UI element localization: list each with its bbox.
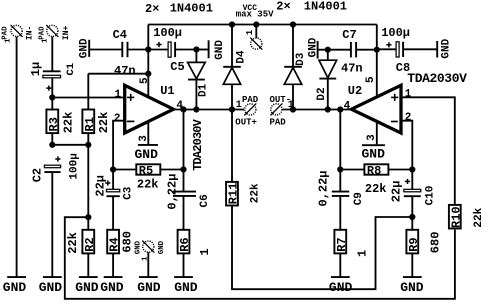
svg-text:100µ: 100µ <box>153 26 182 40</box>
wire feedback vertical U2 <box>339 110 341 170</box>
capacitor C10 <box>390 179 437 206</box>
wire U1 pin 3 to ground <box>147 122 149 144</box>
svg-text:100µ: 100µ <box>381 26 410 40</box>
resistor R6 <box>178 230 212 256</box>
svg-text:C5: C5 <box>170 60 184 74</box>
svg-text:R10: R10 <box>449 206 463 228</box>
capacitor C4 <box>113 28 128 57</box>
junction R8/C9 node <box>337 166 343 172</box>
svg-text:GND: GND <box>134 240 142 254</box>
svg-text:IN-: IN- <box>25 26 34 40</box>
svg-text:GND: GND <box>158 240 166 254</box>
svg-text:R3: R3 <box>47 117 61 131</box>
svg-text:0,22µ: 0,22µ <box>166 174 180 210</box>
junction D2 output node <box>325 106 331 112</box>
ground GND (C2) <box>39 277 63 295</box>
svg-text:1N4001: 1N4001 <box>170 2 213 16</box>
junction crosslink left node <box>85 214 91 220</box>
pin 5 label U2 <box>365 76 377 83</box>
wire R3 to lower rail <box>51 133 53 145</box>
value 47n (C4) <box>114 64 136 78</box>
wire C4 to supply node <box>128 49 149 51</box>
wire C3 to R4 <box>112 196 114 230</box>
svg-text:PAD: PAD <box>1 26 9 40</box>
wire node to C9 <box>339 170 341 191</box>
junction R1/R2 <box>85 142 91 148</box>
svg-text:R7: R7 <box>335 237 349 251</box>
junction D3 rail <box>290 21 296 27</box>
junction D3 output node <box>290 106 296 112</box>
svg-text:1: 1 <box>4 38 12 43</box>
wire feedback node to C6 <box>183 170 185 191</box>
wire lower rail R3-R1 <box>52 144 88 146</box>
svg-text:GND: GND <box>400 280 424 295</box>
junction U1 +input node <box>49 94 55 100</box>
svg-text:1: 1 <box>198 248 212 255</box>
wire down to R1 (crosses pin1 wire) <box>87 74 89 110</box>
svg-text:GND: GND <box>135 147 159 162</box>
svg-text:R1: R1 <box>83 117 97 131</box>
wire GND pad to ground <box>147 252 149 277</box>
wire node to GND bar <box>196 49 208 51</box>
svg-text:D3: D3 <box>295 52 307 66</box>
svg-text:C1: C1 <box>65 63 77 76</box>
svg-text:GND: GND <box>3 280 27 295</box>
svg-text:GND: GND <box>137 280 161 295</box>
wire crosslink to R10 (bottom bus) <box>65 217 455 299</box>
capacitor C3 <box>94 175 135 200</box>
wire R1/R2 vertical <box>87 145 89 230</box>
wire supply node to C8 <box>377 48 396 50</box>
wire C2 to ground <box>51 172 53 277</box>
junction D4 rail <box>229 21 235 27</box>
capacitor C5 <box>153 26 185 74</box>
wire R5 to feedback node <box>160 169 183 171</box>
junction R5/C3 node <box>110 166 116 172</box>
wire OUT- pad to U2 output <box>282 109 351 111</box>
svg-text:1: 1 <box>42 38 50 43</box>
wire C8 to GND bar <box>403 48 437 50</box>
svg-text:R2: R2 <box>83 237 97 251</box>
wire U2 supply vertical (rail corner to pin 5) <box>376 25 378 96</box>
wire R11 to C10/R9 node (bottom link) <box>232 206 412 290</box>
svg-text:680: 680 <box>429 232 443 254</box>
svg-text:22µ: 22µ <box>94 175 108 197</box>
svg-text:GND: GND <box>214 40 226 60</box>
pin 4 label U1 <box>176 100 183 112</box>
svg-text:C7: C7 <box>342 28 356 42</box>
ground GND (R2) <box>75 277 99 295</box>
svg-text:PAD: PAD <box>39 26 47 40</box>
svg-text:U2: U2 <box>348 84 362 98</box>
junction 47n node / pin 5 <box>145 71 151 77</box>
svg-text:4: 4 <box>344 100 351 112</box>
pin 2 label U2 <box>405 112 412 124</box>
ground GND (IN-) <box>3 277 27 295</box>
svg-text:D4: D4 <box>236 50 248 64</box>
ground GND (C7 left) <box>308 37 320 58</box>
junction R5/C6 node <box>180 166 186 172</box>
svg-text:GND: GND <box>39 280 63 295</box>
svg-text:1: 1 <box>356 250 370 257</box>
op-amp U1 (TDA2030V) <box>125 84 205 171</box>
power pad VCC <box>236 4 274 50</box>
wire pin2 node to C10 <box>411 170 413 190</box>
svg-text:1: 1 <box>236 100 242 111</box>
ground GND (R4) <box>100 277 124 295</box>
wire U1 output to OUT+ pad <box>173 109 244 111</box>
label 2x 1N4001 right <box>276 0 347 14</box>
resistor R7 <box>334 230 369 257</box>
pad OUT- (PAD1) <box>270 95 294 128</box>
svg-text:C10: C10 <box>425 186 437 206</box>
svg-text:TDA2030V: TDA2030V <box>191 118 205 170</box>
ground GND (C5 right) <box>209 40 226 60</box>
pin 5 label U1 <box>139 77 151 84</box>
ground GND (C8 right) <box>437 38 452 58</box>
svg-text:22k: 22k <box>61 112 75 134</box>
label 2x 1N4001 left <box>145 2 213 17</box>
junction R3/C2 <box>49 142 55 148</box>
ground GND (U2 pin 3) <box>362 145 386 161</box>
resistor R4 <box>107 230 134 254</box>
svg-text:22k: 22k <box>97 112 111 134</box>
value 47n (C7) <box>341 62 363 76</box>
svg-text:GND: GND <box>362 146 386 161</box>
junction feedback tap U2 <box>337 106 343 112</box>
capacitor C2 <box>31 153 81 182</box>
wire U1 pin 2 to R5 node <box>113 121 125 170</box>
svg-text:TDA2030V: TDA2030V <box>407 71 467 86</box>
svg-text:2: 2 <box>405 112 412 124</box>
capacitor C8 <box>381 26 410 75</box>
svg-text:2×: 2× <box>145 2 159 16</box>
svg-text:22k: 22k <box>66 232 80 254</box>
pin 2 label U1 <box>114 113 121 125</box>
wire R1 to lower rail <box>87 133 89 145</box>
wire C7 to supply node <box>356 49 377 51</box>
wire U2 pin 1 to R10 <box>401 97 455 205</box>
resistor R9 <box>406 230 442 254</box>
svg-text:1: 1 <box>405 88 412 100</box>
svg-text:680: 680 <box>121 231 135 253</box>
diode D3 <box>284 25 307 110</box>
resistor R10 <box>449 205 485 229</box>
svg-text:22k: 22k <box>473 207 485 227</box>
svg-text:47n: 47n <box>114 64 136 78</box>
resistor R3 <box>46 110 75 134</box>
svg-text:22k: 22k <box>250 183 262 203</box>
svg-text:R9: R9 <box>407 237 421 251</box>
svg-text:C3: C3 <box>123 186 135 200</box>
wire C5 to D1/GND node <box>175 49 196 51</box>
ground GND (R7) <box>329 277 353 295</box>
pin 1 label U2 <box>405 88 412 100</box>
wire U2 pin 3 to ground <box>376 122 378 144</box>
svg-text:5: 5 <box>139 77 151 84</box>
wire feedback vertical U1 <box>183 110 185 170</box>
svg-text:OUT+: OUT+ <box>235 117 257 127</box>
svg-text:C6: C6 <box>199 194 211 207</box>
svg-text:1N4001: 1N4001 <box>304 0 347 14</box>
svg-text:2: 2 <box>114 113 121 125</box>
svg-text:D1: D1 <box>198 83 210 97</box>
wire input node to U1 pin 1 <box>52 97 124 99</box>
resistor R2 <box>66 230 97 254</box>
diode D4 <box>223 25 247 110</box>
pad OUT+ (PAD1) <box>235 95 259 128</box>
junction D2/C7 node <box>325 47 331 53</box>
wire C9 to R7 <box>339 195 341 230</box>
svg-text:0,22µ: 0,22µ <box>317 170 331 206</box>
wire R2 to ground <box>87 253 89 277</box>
svg-text:C4: C4 <box>113 28 127 42</box>
resistor R1 <box>82 110 111 134</box>
svg-text:GND: GND <box>100 280 124 295</box>
svg-text:5: 5 <box>365 76 377 83</box>
svg-text:GND: GND <box>329 280 353 295</box>
svg-text:GND: GND <box>79 38 91 58</box>
svg-text:C2: C2 <box>31 168 45 182</box>
wire U1 supply vertical (rail to pin 5) <box>147 25 149 96</box>
ground GND (pad) <box>137 277 161 295</box>
svg-text:22k: 22k <box>137 178 159 192</box>
wire GND to C4 <box>89 49 122 51</box>
junction D1 anode node <box>193 46 199 52</box>
diode D2 <box>316 50 337 110</box>
junction VCC rail <box>253 21 259 27</box>
wire R6 to ground <box>183 253 185 277</box>
svg-text:1µ: 1µ <box>29 62 43 76</box>
wire supply node to C5 <box>148 49 168 51</box>
svg-text:PAD: PAD <box>270 117 287 127</box>
pin 3 label U1 <box>138 135 150 142</box>
svg-text:PAD: PAD <box>242 95 259 105</box>
wire output node to R11 <box>231 110 233 182</box>
svg-text:2×: 2× <box>276 0 290 14</box>
wire feedback node to R8 <box>340 169 364 171</box>
svg-text:U1: U1 <box>160 84 174 98</box>
wire U2 pin 2 to R8 node <box>401 121 412 170</box>
pin 3 label U2 <box>366 134 378 141</box>
wire C1 to input node <box>51 78 53 109</box>
capacitor C7 <box>342 28 356 58</box>
svg-text:22µ: 22µ <box>390 181 404 203</box>
wire node to C3 <box>112 170 114 190</box>
wire to R5 <box>113 169 136 171</box>
capacitor C1 <box>29 62 77 91</box>
resistor R8 <box>364 164 388 196</box>
svg-text:GND: GND <box>440 38 452 58</box>
junction D4 output node <box>229 106 235 112</box>
wire IN+ to C1 <box>51 37 53 72</box>
junction R8/C10 node <box>409 166 415 172</box>
svg-text:GND: GND <box>174 280 198 295</box>
ground GND (R9) <box>400 277 424 295</box>
svg-text:22k: 22k <box>365 182 387 196</box>
svg-text:IN+: IN+ <box>62 25 71 40</box>
junction feedback tap U1 <box>180 106 186 112</box>
wire VCC pad to rail <box>255 25 257 39</box>
svg-text:C9: C9 <box>353 192 365 205</box>
capacitor C6 <box>166 174 211 210</box>
ground GND (R6) <box>174 277 198 295</box>
svg-text:100µ: 100µ <box>69 153 81 179</box>
svg-text:R6: R6 <box>178 237 192 251</box>
wire 47n node to R1 <box>88 73 148 75</box>
wire C6 to R6 <box>183 195 185 230</box>
svg-text:R11: R11 <box>227 183 241 205</box>
wire GND to D2/C7 node <box>318 49 328 51</box>
svg-text:GND: GND <box>308 37 320 57</box>
wire R4 to ground <box>112 253 114 277</box>
svg-text:1: 1 <box>115 89 122 101</box>
capacitor C9 <box>317 170 365 206</box>
pin 1 label U1 <box>115 89 122 101</box>
pin 4 label U2 <box>344 100 351 112</box>
wire R7 to ground <box>339 253 341 277</box>
wire VCC top rail <box>148 24 376 26</box>
ground GND (C4 left) <box>79 38 91 58</box>
wire node to C7 <box>328 49 351 51</box>
pad GND (PAD1) <box>134 240 166 261</box>
junction C10/R9 node <box>409 214 415 220</box>
junction C4/C5 supply node <box>145 46 151 52</box>
diode D1 <box>188 50 210 110</box>
pad IN+ (PAD1) <box>39 25 71 43</box>
svg-text:max 35V: max 35V <box>236 10 274 20</box>
pad IN- (PAD1) <box>1 25 34 43</box>
wire C10 to R9 node <box>411 196 413 217</box>
svg-text:GND: GND <box>75 280 99 295</box>
resistor R5 <box>136 164 160 192</box>
svg-text:1: 1 <box>245 29 255 35</box>
wire R8 to pin 2 node <box>388 169 412 171</box>
junction D1 output node <box>193 106 199 112</box>
resistor R11 <box>226 182 262 206</box>
svg-text:47n: 47n <box>341 62 363 76</box>
svg-text:R8: R8 <box>367 164 381 178</box>
wire IN- to ground <box>16 37 18 278</box>
wire node to R9 <box>411 217 413 230</box>
op-amp U2 (TDA2030V) <box>348 71 467 133</box>
ground GND (U1 pin 3) <box>135 145 159 162</box>
svg-text:R4: R4 <box>108 237 122 251</box>
svg-text:R5: R5 <box>139 164 153 178</box>
wire R9 to ground <box>411 253 413 277</box>
junction U2 supply node <box>374 47 380 53</box>
svg-text:D2: D2 <box>316 87 328 100</box>
